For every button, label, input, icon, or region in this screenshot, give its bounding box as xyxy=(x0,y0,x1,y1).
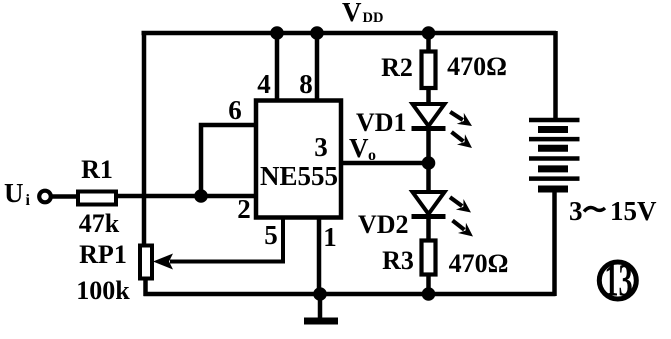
RP1 wiper arrow xyxy=(153,254,173,270)
resistor R2 xyxy=(422,52,436,89)
svg-text:VD1: VD1 xyxy=(356,108,407,137)
junction node: pin2/pin6 tie xyxy=(194,189,208,203)
input terminal Ui xyxy=(39,191,51,203)
svg-text:R2: R2 xyxy=(381,53,413,82)
wire: right vertical VDD to battery plus xyxy=(553,31,558,120)
svg-text:2: 2 xyxy=(237,194,251,224)
wire: VD2 to R3 xyxy=(426,217,431,242)
wire: VDD top rail xyxy=(142,31,557,36)
wire: R1 to pin 2 of NE555 xyxy=(116,194,256,199)
wire: pin 3 output to LED node xyxy=(341,161,429,166)
label net V_DD xyxy=(342,0,383,27)
svg-text:o: o xyxy=(368,147,376,164)
wire: terminal to R1 xyxy=(51,194,80,199)
wire: pin 4 to VDD xyxy=(275,33,280,101)
svg-text:1: 1 xyxy=(323,222,337,252)
resistor R1 xyxy=(78,192,116,205)
svg-text:i: i xyxy=(26,192,31,209)
ground xyxy=(304,294,338,321)
svg-text:6: 6 xyxy=(228,95,242,125)
wire: pin 1 to ground rail xyxy=(317,218,322,295)
svg-text:470Ω: 470Ω xyxy=(447,52,507,81)
wire: R2 to VD1 xyxy=(426,88,431,106)
svg-text:V: V xyxy=(349,133,369,163)
svg-text:13: 13 xyxy=(604,254,632,306)
junction node: pin3 / VD1 / VD2 xyxy=(422,156,436,170)
svg-text:R3: R3 xyxy=(382,246,414,275)
wire: pin 8 to VDD xyxy=(315,33,320,101)
svg-text:3: 3 xyxy=(569,196,583,226)
wire: output node to VD2 xyxy=(426,163,431,194)
svg-text:3: 3 xyxy=(314,132,328,162)
resistor R3 xyxy=(422,241,436,275)
svg-text:RP1: RP1 xyxy=(79,240,127,269)
wire: pin 6 loop to junction xyxy=(201,125,256,196)
label net V_o xyxy=(349,133,376,164)
svg-text:R1: R1 xyxy=(81,155,113,184)
junction node R2/VDD xyxy=(422,26,436,40)
wire: VD1 to output node xyxy=(426,129,431,163)
svg-text:8: 8 xyxy=(299,69,313,99)
svg-text:47k: 47k xyxy=(79,209,120,238)
svg-text:4: 4 xyxy=(257,69,271,99)
svg-text:VD2: VD2 xyxy=(358,210,409,239)
label U_i xyxy=(4,178,31,209)
svg-text:DD: DD xyxy=(363,10,384,26)
IC U1 NE555 body xyxy=(256,101,341,218)
junction node at pin4/VDD xyxy=(270,26,284,40)
battery B1 3~15V xyxy=(529,120,580,189)
LED VD1 xyxy=(412,104,477,153)
LED VD2 xyxy=(412,192,478,242)
wire: left vertical from VDD rail to RP1 top xyxy=(142,31,147,247)
svg-text:NE555: NE555 xyxy=(260,161,338,191)
svg-text:U: U xyxy=(4,178,24,208)
svg-text:V: V xyxy=(342,0,362,27)
junction node at pin8/VDD xyxy=(310,26,324,40)
wire: wiper to pin 5 xyxy=(170,218,283,262)
wire: bottom ground rail xyxy=(144,292,556,297)
figure number 13 (circled) xyxy=(599,254,636,306)
potentiometer RP1 body xyxy=(140,246,152,279)
wire: R3 to ground rail xyxy=(426,274,431,294)
svg-text:100k: 100k xyxy=(76,276,130,305)
wire: VDD rail to R2 xyxy=(426,33,431,53)
wire: RP1 bottom lead xyxy=(143,279,148,297)
wire: battery minus to ground rail xyxy=(552,189,557,296)
svg-text:470Ω: 470Ω xyxy=(449,249,509,278)
junction node R3/ground rail xyxy=(422,287,436,301)
junction node pin1/ground rail xyxy=(313,287,327,301)
value label 3~15V xyxy=(569,196,657,226)
svg-text:5: 5 xyxy=(264,220,278,250)
svg-text:15V: 15V xyxy=(610,196,657,226)
